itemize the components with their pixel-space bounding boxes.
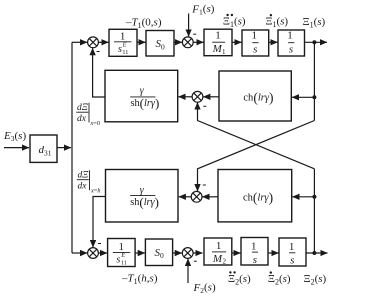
label Xi1(s) (303, 16, 326, 30)
svg-text:Ξ1(s): Ξ1(s) (223, 15, 246, 29)
wire gamma-sh1 output to S1 (93, 52, 105, 98)
summing junction S5 (88, 248, 99, 259)
wire diagonal from top vertical to sum S4 (198, 121, 315, 190)
block S0 top (146, 31, 174, 57)
wire junction to ch2 input (292, 196, 314, 198)
block ch1 (219, 71, 291, 121)
svg-text:ch(lrγ): ch(lrγ) (243, 190, 273, 205)
svg-text:Ξ1(s): Ξ1(s) (265, 15, 288, 29)
block d31 (30, 135, 57, 162)
label Xi2 dot (s) (268, 271, 291, 286)
svg-text:F2(s): F2(s) (193, 282, 216, 296)
svg-text:11: 11 (122, 49, 128, 56)
wire S1 to block 1/s11E (98, 41, 108, 43)
minus sign at S4 top input (203, 184, 206, 186)
summing junction S2 (182, 37, 193, 48)
block integrator 1/s first bottom (241, 238, 268, 266)
label F2(s) (193, 282, 216, 296)
wire ch1 to sum S3 (203, 96, 219, 98)
wire S3 to gamma-sh1 (178, 96, 192, 98)
wire 1/s11E to S0 bottom (135, 252, 145, 254)
svg-text:s: s (253, 44, 257, 56)
wire d31 output to branch node (57, 147, 71, 149)
node top ch junction (312, 95, 316, 99)
svg-text:sh(lrγ): sh(lrγ) (131, 96, 160, 111)
svg-text:s: s (290, 254, 294, 266)
wire output Xi1 (305, 41, 328, 43)
svg-text:11: 11 (121, 260, 127, 267)
summing junction S3 (192, 91, 203, 102)
wire branch to sum S5 (72, 252, 87, 254)
label dXi/dx at x=0 (76, 103, 100, 127)
block S0 bottom (145, 239, 172, 266)
label E3(s) (3, 130, 26, 143)
svg-text:S0: S0 (156, 38, 166, 51)
wire 1/M2 to integrator 1 bottom (232, 252, 241, 254)
svg-text:M: M (212, 253, 223, 265)
svg-text:s: s (289, 44, 293, 56)
wire bottom vertical feedback (313, 169, 315, 253)
block 1/M2 (204, 238, 232, 266)
wire S0 to sum S2 (174, 41, 182, 43)
svg-text:F1(s): F1(s) (191, 3, 214, 17)
svg-text:1: 1 (289, 241, 295, 253)
label Xi2 double dot (s) (228, 271, 251, 286)
summing junction S4 (191, 191, 202, 202)
wire junction to ch1 input (292, 96, 314, 98)
summing junction S1 (88, 37, 99, 48)
wire S2 to block 1/M1 (193, 41, 203, 43)
wire F2 input (187, 259, 189, 283)
wire output Xi2 (306, 252, 328, 254)
wire gamma-sh2 output to S5 (93, 197, 106, 244)
svg-text:1: 1 (215, 30, 221, 42)
wire E3 input (4, 147, 29, 149)
wire stub below S3 and diagonal to bottom vertical (198, 104, 315, 169)
minus sign at S6 bottom input (194, 260, 197, 262)
svg-text:ch(lrγ): ch(lrγ) (243, 90, 273, 105)
wire 1/s11E to S0 (137, 41, 146, 43)
svg-text:Ξ1(s): Ξ1(s) (303, 16, 326, 30)
svg-text:Ξ2(s): Ξ2(s) (304, 273, 327, 287)
wire top vertical feedback (313, 42, 315, 120)
block gamma over sh2 (106, 170, 179, 223)
minus sign at S5 top input (98, 243, 101, 245)
wire branch to sum S1 (72, 41, 87, 43)
svg-text:x=h: x=h (90, 187, 101, 194)
node bottom ch junction (312, 195, 316, 199)
svg-text:E3(s): E3(s) (3, 130, 26, 143)
block 1/s11E bottom (108, 239, 136, 267)
svg-text:–T1(0,s): –T1(0,s) (125, 17, 162, 31)
block integrator 1/s second bottom (279, 238, 306, 266)
svg-text:1: 1 (252, 30, 258, 42)
svg-text:E: E (122, 42, 127, 49)
wire 1/M1 to integrator 1 (232, 41, 242, 43)
svg-text:1: 1 (119, 241, 125, 253)
wire left branch vertical (71, 42, 73, 253)
block 1/M1 (204, 29, 232, 56)
svg-text:s: s (116, 255, 120, 266)
minus sign at S2 top input (193, 33, 196, 35)
wire integrator1 to integrator2 (269, 41, 278, 43)
block 1/s11E top (109, 29, 137, 56)
label Xi1 dot (s) (265, 14, 288, 29)
svg-text:Ξ2(s): Ξ2(s) (268, 273, 291, 287)
node top output junction (312, 40, 316, 44)
svg-text:–T1(h,s): –T1(h,s) (121, 272, 158, 286)
svg-text:1: 1 (287, 30, 293, 42)
wire integrator1 to integrator2 bottom (268, 252, 279, 254)
wire S6 to block 1/M2 (193, 252, 203, 254)
wire S0 to sum S6 (173, 252, 182, 254)
wire ch2 to sum S4 (202, 196, 218, 198)
svg-text:s: s (253, 254, 257, 266)
block ch2 (218, 170, 292, 222)
node bottom output junction (312, 251, 316, 255)
svg-text:dx: dx (78, 181, 88, 191)
svg-text:E: E (120, 252, 125, 259)
svg-text:s: s (118, 44, 122, 55)
svg-text:1: 1 (251, 240, 257, 252)
wire F1 input (188, 14, 190, 37)
label Xi1 double dot (s) (223, 14, 246, 29)
label dXi/dx at x=h (77, 170, 101, 194)
svg-text:dx: dx (77, 114, 87, 124)
label -T1(0,s) (125, 17, 162, 31)
svg-text:sh(lrγ): sh(lrγ) (130, 195, 159, 210)
label F1(s) (191, 3, 214, 17)
svg-text:d31: d31 (39, 144, 52, 158)
summing junction S6 (182, 248, 193, 259)
svg-text:M: M (212, 43, 223, 55)
svg-text:Ξ2(s): Ξ2(s) (228, 273, 251, 287)
svg-text:1: 1 (222, 48, 226, 56)
label Xi2(s) (304, 273, 327, 287)
block gamma over sh1 (105, 70, 178, 122)
minus sign at S1 bottom input (97, 51, 100, 53)
svg-text:dΞ: dΞ (77, 103, 89, 113)
svg-text:dΞ: dΞ (78, 170, 90, 180)
svg-text:S0: S0 (155, 247, 165, 260)
svg-text:x=0: x=0 (90, 120, 101, 127)
minus sign at S3 bottom input (203, 105, 206, 107)
block integrator 1/s second top (278, 30, 305, 56)
wire S4 to gamma-sh2 (179, 196, 192, 198)
svg-text:1: 1 (216, 240, 222, 252)
label -T1(h,s) (121, 272, 158, 286)
wire S5 to block 1/s11E bottom (98, 252, 107, 254)
block integrator 1/s first top (242, 30, 269, 56)
svg-text:2: 2 (223, 258, 227, 266)
